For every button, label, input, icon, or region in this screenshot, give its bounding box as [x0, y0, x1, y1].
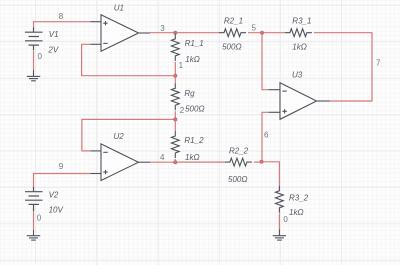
ground (below V1)	[27, 70, 40, 81]
wire: V1 plus up to U1 plus input	[34, 22, 91, 28]
svg-text:0: 0	[283, 215, 288, 224]
svg-text:1kΩ: 1kΩ	[289, 208, 304, 217]
svg-text:1: 1	[179, 61, 184, 70]
svg-text:Rg: Rg	[184, 89, 195, 98]
ground (below V2)	[27, 230, 40, 240]
wire: junction to R3_2 top	[262, 162, 280, 186]
wire: V2 plus up to U2 plus input	[34, 174, 91, 187]
svg-text:8: 8	[59, 12, 64, 21]
svg-text:500Ω: 500Ω	[185, 104, 204, 113]
svg-text:U1: U1	[114, 4, 124, 13]
battery V1	[25, 27, 43, 50]
wire: U2 output to node 4	[150, 161, 175, 163]
svg-text:5: 5	[252, 24, 257, 33]
ground (below R3_2)	[273, 229, 286, 240]
wire: R3_1 right to net 7 down to U3 output	[314, 33, 372, 101]
svg-text:0: 0	[38, 52, 43, 61]
resistor R1_2 (vertical)	[171, 131, 179, 158]
wire: R1_1 bottom to node 1	[174, 62, 176, 76]
svg-text:U2: U2	[114, 132, 125, 141]
svg-text:U3: U3	[292, 70, 303, 79]
svg-text:9: 9	[59, 162, 64, 171]
svg-text:6: 6	[264, 131, 269, 140]
svg-text:2V: 2V	[47, 45, 58, 54]
wire: node 4 to R2_2	[175, 161, 225, 163]
wire: node 2 to R1_2 top	[174, 119, 176, 131]
wire: R2_1 to node 5 to R3_1	[248, 32, 285, 34]
svg-text:R1_2: R1_2	[184, 136, 204, 145]
op-amp U1	[90, 15, 150, 52]
junction net 6 / R2_2 / R3_2	[260, 160, 264, 164]
svg-text:10V: 10V	[49, 205, 64, 214]
svg-text:R3_2: R3_2	[289, 194, 309, 203]
wire: U3 plus input down net 6 to junction	[262, 112, 269, 162]
junction node 1	[173, 74, 177, 78]
wire: R1_2 bottom to node 4	[174, 159, 176, 162]
op-amp U3	[269, 83, 330, 120]
svg-text:V1: V1	[49, 30, 59, 39]
svg-text:R2_2: R2_2	[229, 146, 249, 155]
wire: U1 minus feedback to node 1	[82, 44, 176, 75]
battery V2	[25, 187, 43, 211]
wire: node 5 down to U3 minus input	[262, 33, 269, 90]
svg-text:3: 3	[160, 24, 165, 33]
wire: R2_2 to junction net 6	[254, 161, 262, 163]
junction node 4	[173, 160, 177, 164]
wire: V1 minus down to ground	[33, 50, 35, 70]
op-amp U2	[90, 144, 150, 181]
svg-text:500Ω: 500Ω	[222, 43, 241, 52]
svg-text:1kΩ: 1kΩ	[185, 55, 200, 64]
wire: U1 output to node 3 to R2_1	[150, 32, 219, 34]
resistor R2_2 (horizontal)	[225, 158, 252, 166]
svg-text:R1_1: R1_1	[185, 39, 204, 48]
resistor R3_2 (vertical)	[276, 186, 284, 213]
svg-text:1kΩ: 1kΩ	[292, 43, 307, 52]
svg-text:500Ω: 500Ω	[228, 175, 247, 184]
svg-text:7: 7	[376, 59, 381, 68]
resistor R3_1 (horizontal)	[285, 29, 312, 37]
svg-text:2: 2	[180, 106, 185, 115]
junction node 5	[260, 31, 264, 35]
junction node 3	[173, 31, 177, 35]
wire: R3_2 bottom to ground	[278, 213, 280, 229]
resistor Rg (vertical)	[171, 83, 179, 110]
svg-text:1kΩ: 1kΩ	[185, 153, 200, 162]
wire: Rg bottom to node 2	[174, 111, 176, 119]
resistor R1_1 (vertical)	[171, 34, 179, 61]
svg-text:R2_1: R2_1	[224, 16, 243, 25]
junction node 2	[173, 117, 177, 121]
svg-text:0: 0	[37, 213, 42, 222]
wire: node 3 junction segment to R1_1	[174, 33, 176, 34]
wire: node 2 to U2 minus input	[82, 119, 175, 150]
svg-text:R3_1: R3_1	[292, 16, 311, 25]
svg-text:4: 4	[160, 153, 165, 162]
svg-text:V2: V2	[49, 191, 59, 200]
wire: V2 minus down to ground	[33, 211, 35, 230]
wire: node 1 to Rg top	[174, 76, 176, 84]
resistor R2_1 (horizontal)	[219, 29, 246, 37]
